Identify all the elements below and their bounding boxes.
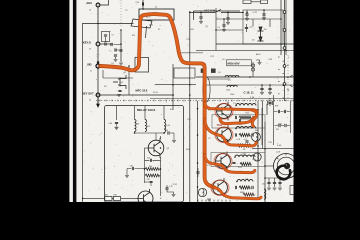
label box MOW 60V bbox=[227, 60, 252, 66]
svg-text:L-58: L-58 bbox=[276, 152, 280, 154]
coil core block right bbox=[211, 69, 216, 73]
transistor Y103 (Q5) bbox=[216, 152, 231, 171]
wire (highlighted) signal through transistor Y104 to bottom output bus bbox=[214, 187, 262, 199]
svg-text:R41: R41 bbox=[105, 195, 108, 197]
detector block box bbox=[243, 10, 283, 44]
terminal AGC J4 bbox=[86, 1, 100, 12]
left film strip white sliver bbox=[69, 0, 73, 202]
CRT tick marks bbox=[275, 154, 286, 179]
svg-text:AGC S.W: AGC S.W bbox=[204, 9, 216, 12]
capacitor C48 with ground bbox=[125, 165, 145, 177]
wire (highlighted) signal branch through transistor Y103 to row 3 bbox=[205, 155, 255, 173]
capacitor pair y=119 bbox=[275, 124, 291, 127]
ground right of C43 bbox=[172, 133, 176, 143]
wire: horizontal y=85 bbox=[205, 84, 294, 86]
capacitor C6 with ground bbox=[199, 17, 202, 18]
capacitor C46 bbox=[145, 158, 161, 162]
svg-text:KEY.O: KEY.O bbox=[83, 41, 91, 45]
svg-text:RELAY 100.6: RELAY 100.6 bbox=[137, 108, 156, 112]
transistor Y101 (Q3) bbox=[217, 102, 232, 121]
svg-text:(X): (X) bbox=[206, 26, 209, 28]
right letterbox black bar bbox=[294, 0, 360, 202]
svg-text:10K: 10K bbox=[242, 154, 246, 156]
wire: horizontal y=149 right bbox=[252, 148, 294, 150]
svg-text:VID: VID bbox=[87, 63, 92, 67]
capacitor C11 with ground bbox=[268, 85, 272, 95]
highlight ring around transistor Y101 bbox=[215, 104, 233, 120]
svg-text:Q2: Q2 bbox=[121, 82, 124, 84]
wire: horizontal y=79 bbox=[207, 78, 230, 80]
wire: vertical x=189.8 bbox=[189, 11, 191, 202]
row3 block box bbox=[211, 153, 265, 167]
svg-text:R6: R6 bbox=[243, 149, 245, 151]
svg-text:R51: R51 bbox=[147, 126, 150, 128]
transformer can row3 bbox=[253, 153, 261, 161]
svg-text:C49: C49 bbox=[147, 179, 150, 181]
connector box 2 top edge bbox=[261, 0, 268, 4]
edge terminal 5 bbox=[283, 83, 286, 86]
capacitor C20 with ground bbox=[117, 80, 122, 97]
wire: vertical x=173 bbox=[172, 64, 174, 110]
capacitor C43 bbox=[165, 130, 174, 135]
svg-text:C40: C40 bbox=[109, 123, 112, 125]
svg-text:+C1: +C1 bbox=[244, 139, 247, 141]
svg-text:L201: L201 bbox=[226, 90, 230, 92]
caps under CRT: C65 bbox=[273, 178, 277, 190]
resistor R43 bbox=[145, 168, 159, 171]
wire bottom resistor row bbox=[83, 197, 138, 199]
svg-text:D2: D2 bbox=[252, 39, 254, 41]
wire stub x=253 in box bbox=[252, 19, 254, 26]
resistor R40 box bbox=[113, 195, 120, 201]
wire: horizontal y=50.5 gray bbox=[196, 50, 294, 52]
wire cap C1 to C2 bbox=[114, 45, 122, 51]
CRT center electrode bbox=[284, 163, 290, 169]
svg-text:J5: J5 bbox=[89, 99, 91, 101]
svg-text:KEY OUT: KEY OUT bbox=[82, 92, 94, 96]
svg-text:(L20): (L20) bbox=[166, 125, 170, 127]
capacitor C15 with ground bbox=[245, 10, 249, 21]
CRT socket middle circle bbox=[277, 157, 295, 175]
wire KEY OUT to right bbox=[100, 94, 174, 96]
terminal VID J2 bbox=[87, 63, 100, 73]
transformer T2 small circles bbox=[251, 62, 254, 77]
resistor R41 box bbox=[105, 195, 112, 201]
capacitor C106 bbox=[232, 162, 235, 163]
coil T101 row1 bbox=[236, 104, 256, 106]
wire verticals from relay box top bbox=[117, 106, 165, 120]
AGC filter block box bbox=[102, 32, 110, 42]
wire Q9 collector/emitter bbox=[145, 136, 161, 196]
svg-text:Y101: Y101 bbox=[217, 124, 223, 127]
coil T102 row2 bbox=[236, 127, 256, 129]
capacitor C8 inside block bbox=[104, 35, 107, 36]
capacitor C103 bbox=[244, 139, 249, 142]
capacitor C12 with ground bbox=[262, 10, 266, 20]
paper background bbox=[70, 0, 295, 202]
wire (highlighted) signal wiggle right of rows 1-2 bbox=[252, 110, 256, 126]
bottom edge glyph row bbox=[198, 200, 230, 202]
transformer box L4 bbox=[139, 9, 174, 20]
svg-text:MOt/ 60V: MOt/ 60V bbox=[228, 61, 240, 65]
coil L19 vertical bbox=[145, 120, 147, 132]
caps under CRT: C66 bbox=[278, 178, 282, 190]
svg-text:C63: C63 bbox=[262, 184, 265, 186]
coil L20 vertical bbox=[164, 120, 166, 133]
coil L18 vertical bbox=[135, 120, 137, 132]
svg-text:C-16, 11: C-16, 11 bbox=[244, 91, 255, 95]
wire stub x=267 bbox=[266, 104, 268, 115]
svg-text:R48: R48 bbox=[136, 124, 139, 126]
capacitor C5 with ground bbox=[222, 19, 226, 32]
arrow hook end y=77 bbox=[290, 75, 293, 77]
coil core block left bbox=[201, 69, 206, 73]
resistor R112 row4 bbox=[235, 186, 253, 189]
capacitor C49 bbox=[145, 179, 153, 186]
svg-text:+C13: +C13 bbox=[249, 27, 253, 29]
RELAY block box bbox=[105, 106, 184, 203]
ground near transformer bbox=[256, 60, 262, 65]
highlight ring around transistor Y103 bbox=[214, 154, 232, 170]
right edge vertical bus 1 bbox=[280, 0, 282, 55]
dotted vertical x=288 bbox=[287, 55, 289, 101]
wire: vertical x=193.5 top bbox=[193, 11, 195, 20]
ground bottom-left of rows bbox=[207, 199, 211, 201]
svg-text:J3: J3 bbox=[89, 48, 91, 50]
capacitor C14 with ground bbox=[226, 12, 230, 24]
edge terminal 1 bbox=[283, 11, 286, 14]
svg-text:R40: R40 bbox=[114, 195, 117, 197]
right edge vertical bus 2 bbox=[285, 0, 287, 55]
misc tiny value labels (decorative density) bbox=[104, 10, 290, 200]
coil L201 on y=86.5 bbox=[227, 85, 237, 87]
svg-text:C4: C4 bbox=[218, 27, 220, 29]
capacitor C2 bbox=[115, 48, 116, 51]
schematic left border line bbox=[82, 23, 84, 202]
capacitor C2 dark blob bbox=[97, 61, 99, 63]
wire: horizontal bus y=24 bbox=[83, 23, 134, 25]
coil L7 on y=77 bbox=[225, 75, 239, 77]
svg-text:J1: J1 bbox=[90, 70, 92, 72]
wire y=133 coils join bbox=[135, 132, 165, 141]
capacitor C10 bbox=[142, 2, 143, 5]
edge terminal strip vertical bbox=[284, 0, 286, 101]
diode D2 bbox=[258, 35, 264, 41]
bowtie connector bbox=[268, 98, 273, 106]
row1 block box bbox=[212, 115, 265, 128]
wire: horizontal y=77 bbox=[196, 76, 294, 78]
wire: horizontal y=84.7 bbox=[155, 84, 196, 86]
switch AGC S.W bbox=[215, 9, 221, 12]
terminal KEY.O J3 bbox=[83, 41, 100, 51]
wire: dotted bus y=98.6 bbox=[150, 98, 294, 100]
right column tick marks bbox=[278, 57, 289, 98]
svg-text:C-10: C-10 bbox=[169, 186, 173, 188]
wire (highlighted) signal path trunk: VID terminal over IF transformer down main bus bbox=[100, 14, 214, 188]
transistor Q2 FET symbol bbox=[113, 75, 126, 89]
wire: vertical x=290.5 bbox=[290, 101, 292, 133]
wire: stub y=52.8 bbox=[181, 52, 203, 54]
tick crosses on dotted bus bbox=[100, 100, 292, 102]
cap-res-cap row2 bbox=[235, 133, 253, 136]
capacitor C3 with ground bbox=[114, 55, 117, 56]
wire: horizontal y=44 bbox=[216, 43, 294, 45]
svg-text:J4: J4 bbox=[89, 10, 91, 12]
left film strip inner black bar bbox=[73, 0, 77, 202]
wire stub x=270 in box bbox=[269, 19, 271, 27]
svg-text:AGC: AGC bbox=[86, 1, 92, 5]
IF block box (174,68) bbox=[174, 68, 195, 78]
coil L110 vertical bbox=[264, 189, 266, 199]
svg-text:VHF: VHF bbox=[230, 94, 235, 96]
svg-text:C7: C7 bbox=[112, 35, 114, 37]
wire: vertical x=265 bbox=[264, 122, 266, 202]
wire into CRT bbox=[265, 165, 274, 167]
wire from AGC terminal to top edge bbox=[100, 0, 109, 5]
resistor R114 row4 low bbox=[243, 193, 254, 196]
coil T103 row3 bbox=[235, 155, 255, 157]
wire: vertical x=197.5 bbox=[197, 101, 199, 202]
wire: vertical x=216 bbox=[215, 8, 217, 51]
wire (highlighted) signal branch to transistor Y101 row 1 bbox=[205, 103, 258, 115]
wire x=103 stub bbox=[102, 70, 104, 78]
caps under CRT: C64 bbox=[267, 178, 271, 190]
ground under x=121 bbox=[119, 63, 123, 65]
transistor Y102 (Q4) bbox=[217, 125, 232, 144]
capacitor C-10 with ground bbox=[165, 185, 175, 197]
wire x=143 from top bbox=[142, 0, 144, 9]
capacitor C16 with ground bbox=[260, 85, 264, 95]
transistor Q9 bbox=[148, 138, 170, 158]
wire (highlighted) signal branch row 2 upper bbox=[220, 118, 254, 124]
wire: vertical x=121 bbox=[120, 30, 122, 62]
wire y=178 under CRT bbox=[265, 177, 283, 179]
top connector link line bbox=[251, 1, 261, 3]
svg-text:C46: C46 bbox=[147, 158, 150, 160]
edge terminal 3 bbox=[283, 47, 286, 50]
wire inside shield bbox=[203, 73, 205, 100]
svg-text:C48: C48 bbox=[130, 165, 133, 167]
wire from KEY.O to AGC block bbox=[100, 43, 113, 45]
wire: vertical x=262 lower bbox=[261, 108, 263, 145]
IF can right edge bbox=[146, 26, 147, 38]
svg-text:R43: R43 bbox=[149, 166, 152, 168]
wire: dotted bus y=100.5 bbox=[96, 100, 294, 102]
left letterbox black bar bbox=[0, 0, 69, 202]
wire (highlighted) signal branch through transistor Y102 to row 2 lower bbox=[205, 119, 257, 146]
wire: horizontal y=19 bbox=[216, 18, 281, 20]
resistor R45 bbox=[145, 174, 159, 177]
svg-text:R09: R09 bbox=[275, 106, 278, 108]
svg-text:C43: C43 bbox=[165, 130, 168, 132]
resistor R101 row1 bbox=[235, 116, 254, 119]
transistor Y104 (Q6) bbox=[213, 178, 228, 197]
scan noise dots (decorative) bbox=[84, 1, 290, 201]
wire: vertical x=258 bbox=[257, 101, 259, 198]
diode D4 bbox=[258, 27, 264, 35]
svg-text:AGC: AGC bbox=[256, 53, 261, 56]
wire inside AGC block bbox=[105, 37, 107, 42]
wire: vertical x=273.5 bbox=[273, 95, 275, 145]
resistor R109 row3 bbox=[240, 162, 251, 165]
dotted vertical line x=121 top bbox=[120, 0, 122, 28]
capacitor C109 bbox=[196, 168, 199, 177]
transistor Q10 bbox=[138, 189, 153, 208]
wire: horizontal y=11 top right bbox=[194, 10, 241, 12]
wire: AGC S.W line y=12.4 bbox=[190, 11, 243, 13]
highlight ring around transistor Y102 bbox=[215, 127, 233, 143]
connector boxes top edge bbox=[243, 0, 251, 4]
junction dots at wire nodes bbox=[82, 8, 287, 199]
wire y=78 mid-left bbox=[103, 77, 133, 79]
wire: vertical x=262.5 bbox=[262, 101, 264, 148]
capacitor C40 with ground bbox=[109, 122, 119, 129]
capacitor pair y=111 bbox=[274, 110, 290, 113]
transformer circle x=256 bbox=[252, 133, 261, 142]
edge terminal 2 bbox=[283, 29, 286, 32]
IF transformer slanted can bbox=[131, 19, 152, 28]
shielded coil ellipse bbox=[203, 77, 210, 102]
transformer T105 circle bbox=[198, 188, 206, 196]
highlight ring around transistor Y104 bbox=[211, 180, 229, 195]
CRT cathode heavy arc bbox=[277, 166, 291, 180]
CRT socket outer circle bbox=[274, 154, 299, 179]
ground arrow below KEY OUT bbox=[97, 97, 100, 107]
capacitor C9 bbox=[245, 24, 248, 32]
resistor R106 row2 low bbox=[237, 144, 251, 147]
capacitor C4 on x=121 bbox=[119, 50, 122, 51]
arrow hook end y=85 bbox=[290, 85, 293, 87]
terminal KEY OUT J5 bbox=[82, 92, 100, 102]
svg-text:12V: 12V bbox=[187, 119, 191, 121]
svg-text:MFC 52.6: MFC 52.6 bbox=[136, 89, 148, 93]
wire: vertical x=129 mid bbox=[128, 66, 130, 95]
svg-text:L101: L101 bbox=[278, 123, 282, 125]
svg-text:MC 2: MC 2 bbox=[146, 16, 150, 18]
edge terminal 4 bbox=[283, 65, 286, 68]
capacitor C7 on KEY line bbox=[105, 42, 106, 45]
wire: terminal column vertical bbox=[97, 3, 99, 103]
wire x=144.5 joins bbox=[145, 160, 161, 183]
capacitor C1 bbox=[111, 43, 112, 46]
coil T104 row4 bbox=[237, 180, 253, 182]
ground under C3 bbox=[115, 57, 117, 59]
svg-text:L-7: L-7 bbox=[228, 80, 231, 82]
svg-text:D4: D4 bbox=[264, 29, 266, 31]
label box bottom right bbox=[290, 186, 295, 195]
capacitor C108 in row1 box bbox=[239, 119, 240, 122]
IF amp block box around orange hook bbox=[135, 58, 149, 73]
wire: horizontal y=30 bbox=[216, 29, 243, 31]
